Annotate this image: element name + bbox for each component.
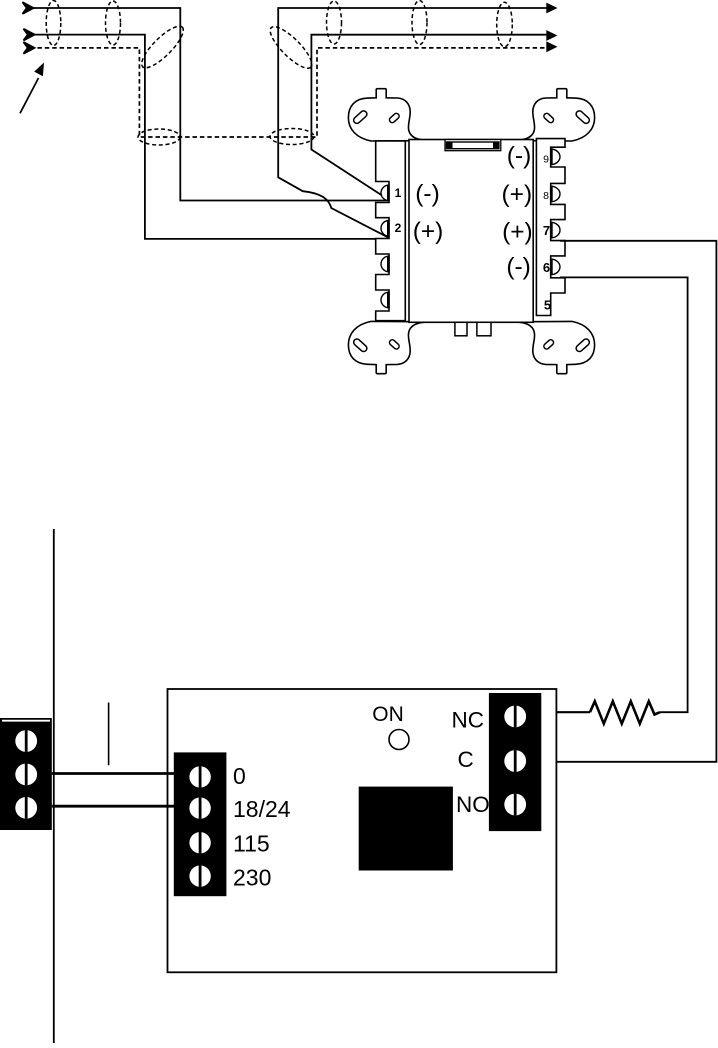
svg-text:18/24: 18/24 [233,796,291,822]
svg-text:C: C [458,747,474,772]
svg-text:6: 6 [543,260,550,275]
input screw 115 [189,832,210,853]
module body [409,140,533,323]
notch black bar [446,141,500,149]
arrowhead triangle wire R2 out [546,30,557,41]
mark line above input wires [108,703,110,766]
terminal screw 6 [551,259,560,275]
mounting ear top-left [348,89,433,141]
svg-text:115: 115 [233,831,270,857]
svg-text:(+): (+) [501,181,532,208]
svg-text:0: 0 [233,763,246,789]
module top notch [445,140,501,151]
terminal screw 8 [551,186,560,202]
psu input terminal block [174,752,227,896]
cable loop ellipse 2 [106,1,121,45]
SECTION: top wiring to module [29,8,548,239]
module bottom tab 2 [477,322,491,336]
input screw 230 [189,865,210,886]
mains screw 2 [15,764,37,786]
svg-text:NO: NO [456,792,490,817]
contact screw C [504,750,526,772]
wire L3/R3 dashed: return conductor through module area [30,48,546,137]
corner loop ellipse left [136,21,188,73]
mounting ear bottom-right [510,321,595,373]
terminal screw 4 [381,292,389,308]
mains screw 1 [15,730,37,752]
svg-text:8: 8 [543,190,549,202]
mounting ear bottom-left [348,321,433,373]
input wire 18/24 [52,805,175,808]
notch white window [453,143,494,148]
mains terminal block (wall) [0,718,52,830]
svg-text:1: 1 [395,186,402,200]
terminal screw 7 [551,222,560,238]
relay contact block [489,693,541,831]
svg-text:(+): (+) [502,219,533,246]
resistor EOL [590,701,660,723]
indicator arrow [20,78,39,113]
right terminal rail [536,139,565,316]
svg-text:(-): (-) [415,181,439,208]
power supply box [168,689,557,972]
terminal screw 1 [381,185,389,201]
cable loop ellipse 4 [412,1,427,45]
wire terminal 7 to relay C [541,241,716,762]
input wire 0 [52,772,175,775]
cable loop ellipse 1 [46,1,61,46]
arrowhead triangle wire R1 out [546,3,557,14]
ear slot big top-left [352,110,368,125]
LED [389,730,409,750]
mains screw 3 [15,797,37,819]
svg-text:2: 2 [395,221,402,235]
corner loop ellipse right [265,21,317,73]
svg-text:5: 5 [544,297,551,312]
mounting ear top-right [510,89,595,141]
svg-text:230: 230 [233,864,271,890]
contact screw NO [504,794,526,816]
svg-text:(-): (-) [507,143,531,170]
cable loop ellipse 5 [497,2,513,47]
relay body [359,787,453,871]
wire L2 solid: left arrow in, down, to terminal 2 [30,35,389,239]
svg-text:(+): (+) [413,218,444,245]
horizontal loop ellipse A [138,129,180,145]
ear slot small top-left [388,112,400,123]
arrowhead chevron wire L2 [24,29,35,41]
input screw 18/24 [189,797,210,818]
wire L1 solid: left arrow in, down, to terminal 1 [29,8,389,201]
wire R2 solid: from terminal 1 diagonal up, out right [311,35,548,200]
wall line [53,529,55,1043]
terminal screw 3 [381,256,389,272]
left terminal rail [376,141,406,321]
svg-text:7: 7 [543,223,550,238]
svg-text:ON: ON [372,703,404,726]
module bottom tab 1 [455,322,467,336]
wire terminal 6 to resistor [560,277,688,712]
arrowhead triangle wire R3 out [546,41,557,52]
svg-text:NC: NC [452,708,485,733]
terminal screw 2 [381,221,389,237]
svg-text:(-): (-) [506,254,530,281]
arrowhead chevron wire L1 [23,2,34,14]
horizontal loop ellipse B [270,129,314,145]
arrowhead chevron wire L3 [24,42,35,54]
terminal screw 9 [551,149,560,165]
input screw 0 [189,766,210,787]
cable loop ellipse 3 [327,1,342,44]
svg-text:9: 9 [543,154,549,166]
wire R1 solid: from terminal 2 up with crossover jog, out right [278,8,548,238]
contact screw NC [504,706,526,728]
wire relay NC to resistor [541,711,590,713]
